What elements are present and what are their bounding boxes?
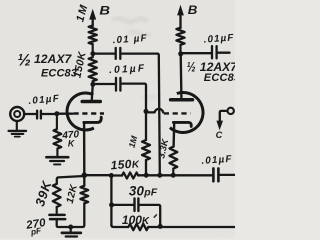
arrow to C [216,121,223,131]
triode V1 envelope [67,93,94,130]
resistor R10 100K [128,224,148,230]
resistor R9 12K [83,175,85,186]
node E (plate junction V2) [178,51,183,56]
B+ arrow (stage 2) [179,14,181,29]
svg-text:150K: 150K [110,156,140,172]
node M (C7/R10 junction) [158,224,163,229]
V2 grid (dashed) [164,112,191,114]
V1 plate [92,84,93,99]
capacitor C4 .01uF [211,46,213,58]
capacitor C3 .01uF [115,78,117,91]
terminal (cathode output) [228,108,234,114]
wire C6/R9 bottom [57,203,85,227]
wire rail mid [138,174,212,176]
wire rail left [84,174,110,176]
wire C2 to grid-2 column [121,54,159,175]
wire rail to R7 [111,174,122,176]
node H (R4 to rail) [144,173,149,178]
wire node D to V2 grid with hop [146,109,163,112]
resistor R7 150K [122,173,138,179]
node B1 (R2/R3 junction) [90,51,95,56]
ground (R1) [46,156,68,159]
svg-text:.01µF: .01µF [201,154,233,167]
node L (30pF tap) [109,202,114,207]
resistor R6 (plate load V2) [176,28,184,45]
resistor R8 39K [53,184,61,207]
wire C5 out [220,174,235,176]
capacitor C5 .01uF output [212,168,215,181]
node J (R5 to rail) [171,173,176,178]
resistor R2 1M [89,26,97,45]
wire C3 to node D [122,84,147,110]
svg-text:½: ½ [187,60,196,75]
wire jack to C1 [24,113,36,115]
node A (grid junction) [54,111,59,116]
node F (V1 cathode junction) [82,172,88,178]
svg-text:B: B [188,3,198,17]
wire V2 cathode down [172,123,175,147]
photocopy smudge top middle [112,18,151,36]
wire bottom corner [111,225,128,227]
resistor R3 150K [89,57,97,81]
svg-text:.01µF: .01µF [109,63,147,76]
wire node L to C7 [112,204,134,206]
node K (ground tap) [68,225,73,230]
svg-text:C: C [216,130,223,140]
node D (V2 grid node) [144,109,149,114]
svg-text:B: B [99,4,110,18]
wire V1 cathode down [83,124,86,174]
wire C4 out [218,52,230,54]
svg-text:100K: 100K [122,213,150,227]
svg-text:.01µF: .01µF [203,32,234,45]
capacitor C1 .01uF input [37,111,41,119]
smudge near tube2 left [141,95,159,100]
capacitor C2 .01uF [115,48,117,59]
resistor R5 3.3K [170,147,178,169]
wire branch to R8 [57,176,85,184]
V2 cathode [173,122,191,126]
wire C7 to corner [140,205,161,226]
V2 plate [180,54,183,98]
node G (rail tap) [109,173,114,178]
V1 cathode [84,117,101,122]
capacitor C6 270pF [49,214,64,217]
triode V2 envelope [170,93,203,133]
svg-text:12AX7: 12AX7 [34,52,72,66]
wire R10 to node M and out [148,226,235,228]
wire node G down [110,176,112,225]
wire node A to grid V1 [59,113,73,115]
ground (jack) [16,121,18,130]
node I (grid-2 column to rail) [157,173,162,178]
wire node E to C4 [181,52,211,54]
wire node B1 to C2 [94,52,115,54]
ground (cathode network) [70,227,72,232]
resistor R4 1M [145,111,147,140]
wire terminal to arrow [220,111,227,121]
input jack J1 [10,107,24,121]
resistor R1 470K [56,115,58,130]
wire node B2 to C3 [94,83,115,85]
V1 grid (dashed) [74,112,105,114]
svg-text:½: ½ [17,52,31,70]
stray mark [154,215,156,217]
svg-text:K: K [68,139,75,149]
B+ arrow (stage 1) [92,18,94,27]
svg-text:ECC83: ECC83 [204,72,235,84]
node B2 (plate junction V1) [90,82,95,87]
capacitor C7 30pF [133,198,135,211]
wire C1 to node A [42,113,55,115]
